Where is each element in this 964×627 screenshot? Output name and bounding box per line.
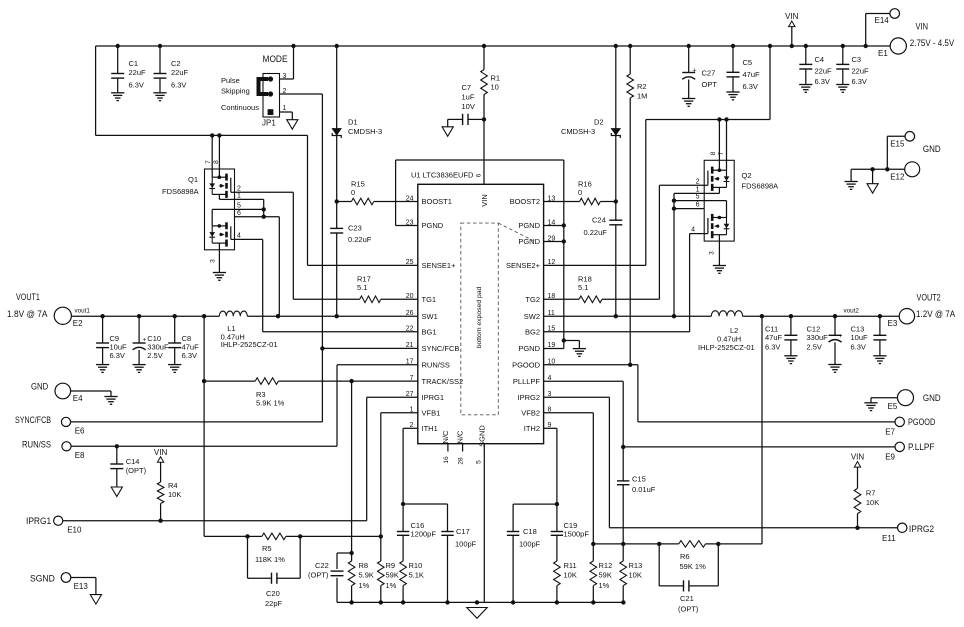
svg-text:10K: 10K [564,571,577,580]
capacitor C19 [551,504,590,538]
wire Q1 pins 1-5-6 SW tie [235,199,280,316]
capacitor C5 [727,46,761,92]
svg-text:C17: C17 [456,527,470,536]
svg-text:C2: C2 [171,59,181,68]
svg-text:VOUT2: VOUT2 [917,293,941,304]
wire RUN/SS net [71,365,418,449]
resistor R12 [590,544,612,603]
ground JP1 [287,120,298,130]
svg-text:E5: E5 [888,402,898,411]
svg-text:47uF: 47uF [743,70,761,79]
svg-text:E13: E13 [74,582,89,591]
capacitor C18 [507,504,557,602]
svg-text:PGOOD: PGOOD [512,360,541,369]
svg-text:TRACK/SS2: TRACK/SS2 [422,377,464,386]
svg-text:22pF: 22pF [265,599,283,608]
wire SENSE2+ net [544,120,646,266]
svg-text:5.1K: 5.1K [409,571,424,580]
resistor R17 [293,275,418,303]
capacitor C22 [308,553,352,602]
svg-text:BG1: BG1 [422,327,437,336]
resistor R16 [544,180,616,205]
diode D1 CMDSH-3 [332,46,382,202]
svg-text:(OPT): (OPT) [308,571,329,580]
svg-text:E10: E10 [67,526,82,535]
ground C9 [96,365,109,373]
wire TRACK/SS2 branch [349,381,353,555]
resistor R15 [335,180,418,205]
svg-text:7: 7 [718,151,725,155]
ground C2 [153,93,166,101]
svg-text:(OPT): (OPT) [126,466,147,475]
wire ITH1 net [401,428,418,506]
svg-text:IPRG2: IPRG2 [909,524,934,535]
svg-text:Q1: Q1 [188,175,198,184]
svg-text:22: 22 [406,326,414,333]
svg-text:CMDSH-3: CMDSH-3 [561,127,595,136]
svg-text:PGOOD: PGOOD [908,417,935,428]
svg-text:1: 1 [237,193,241,200]
svg-text:59K: 59K [599,571,612,580]
ground E12 earth [845,169,858,189]
svg-text:22uF: 22uF [815,67,833,76]
svg-text:+: + [693,68,697,75]
svg-text:BOOST2: BOOST2 [510,197,540,206]
svg-text:P.LLPF: P.LLPF [908,442,935,453]
svg-text:C27: C27 [702,69,716,78]
svg-text:VOUT1: VOUT1 [16,292,40,303]
svg-text:C23: C23 [348,224,362,233]
svg-text:+: + [143,337,147,344]
svg-text:FDS6898A: FDS6898A [162,187,199,196]
wire Q2 drain to VIN [646,46,770,170]
connector E15 [887,132,914,170]
svg-text:GND: GND [31,382,48,393]
svg-text:GND: GND [923,393,941,404]
connector E6 SYNC/FCB [15,415,85,435]
svg-text:ITH1: ITH1 [422,424,438,433]
svg-text:R10: R10 [409,561,423,570]
svg-text:5.1: 5.1 [578,283,588,292]
svg-text:D1: D1 [348,118,358,127]
svg-text:5: 5 [237,203,241,210]
svg-text:8: 8 [710,151,717,155]
svg-text:10K: 10K [629,571,642,580]
power flag VIN R4 [154,448,168,482]
svg-text:JP1: JP1 [262,119,276,128]
capacitor C10 [133,316,169,364]
svg-text:BOOST1: BOOST1 [422,197,452,206]
connector E7 PGOOD [885,417,935,437]
resistor R2 [627,46,648,365]
svg-text:SENSE1+: SENSE1+ [422,261,457,270]
svg-text:5.9K: 5.9K [359,571,374,580]
wire VOUT1 feedback riser [202,316,248,536]
resistor R10 [400,535,424,602]
svg-text:FDS6898A: FDS6898A [742,181,779,190]
svg-text:2: 2 [237,186,241,193]
svg-text:21: 21 [406,342,414,349]
svg-text:BG2: BG2 [525,327,540,336]
svg-text:5.9K 1%: 5.9K 1% [256,399,285,408]
svg-text:6: 6 [475,173,482,177]
ground E13 [90,595,101,605]
wire IPRG1 net [63,397,418,523]
wire VOUT2 line [743,314,900,318]
ground C5 [726,92,739,100]
capacitor C21 [659,544,718,614]
node VIN bus junctions [116,44,868,48]
svg-text:IPRG2: IPRG2 [517,393,540,402]
connector E5 GND [871,390,941,411]
svg-text:Q2: Q2 [742,171,752,180]
ground C10 [133,365,146,373]
ground E12 triangle [867,169,878,193]
svg-text:6.3V: 6.3V [852,77,867,86]
svg-text:VIN: VIN [851,453,865,462]
svg-text:0.01uF: 0.01uF [632,485,656,494]
svg-text:IPRG1: IPRG1 [26,516,51,527]
svg-text:RUN/SS: RUN/SS [22,439,51,450]
ground C7 [442,127,453,137]
svg-text:IPRG1: IPRG1 [422,393,445,402]
capacitor C13 [851,316,887,356]
connector E8 RUN/SS [22,439,85,460]
wire Q1 gate1 to TG1 [235,192,294,299]
ground C1 [111,93,124,101]
wire IPRG2 net [544,397,898,530]
svg-text:TG2: TG2 [525,295,540,304]
svg-text:5.1: 5.1 [357,283,367,292]
svg-text:2.5V: 2.5V [807,343,822,352]
svg-text:Pulse: Pulse [221,76,240,85]
svg-text:22uF: 22uF [852,67,870,76]
svg-text:22uF: 22uF [129,68,147,77]
svg-text:ITH2: ITH2 [524,424,540,433]
svg-text:GND: GND [923,144,941,155]
svg-text:6.3V: 6.3V [110,351,125,360]
wire JP1 pin3 to VIN [280,46,294,79]
svg-text:C4: C4 [815,55,825,64]
svg-text:SW1: SW1 [422,312,438,321]
ground C3 [836,85,849,93]
svg-text:C18: C18 [523,527,537,536]
svg-text:330uF: 330uF [807,333,829,342]
svg-text:C1: C1 [129,59,139,68]
svg-text:6: 6 [237,210,241,217]
wire Q1 gate2 to BG1 [235,239,418,331]
connector E3 VOUT2 [844,293,956,328]
svg-text:VFB1: VFB1 [422,408,441,417]
wire SGND pin5 [483,444,485,603]
capacitor C9 [96,316,127,364]
svg-text:2.5V: 2.5V [147,351,162,360]
svg-text:RUN/SS: RUN/SS [422,360,450,369]
capacitor C12 [807,316,843,364]
svg-text:SGND: SGND [478,425,487,447]
svg-text:R12: R12 [599,561,613,570]
svg-text:C3: C3 [852,55,862,64]
capacitor C1 [111,46,146,93]
wire SW1 line [247,314,417,318]
svg-text:C20: C20 [266,589,280,598]
resistor R3 [204,378,418,408]
svg-text:E15: E15 [890,140,905,149]
svg-text:SYNC/FCB: SYNC/FCB [422,344,460,353]
svg-text:C15: C15 [632,475,646,484]
svg-text:R8: R8 [359,561,369,570]
svg-text:28: 28 [458,457,465,465]
svg-text:TG1: TG1 [422,295,437,304]
svg-text:118K 1%: 118K 1% [255,555,285,564]
svg-text:C7: C7 [462,83,472,92]
resistor R9 [378,536,399,602]
wire VFB2 feedback line [593,316,762,546]
svg-text:C24: C24 [592,216,606,225]
svg-text:E2: E2 [73,319,83,328]
svg-text:3: 3 [709,251,716,255]
capacitor C27 [682,46,717,99]
wire PGND pin23 loop [396,160,566,349]
connector E10 IPRG1 [26,516,82,535]
svg-text:100pF: 100pF [455,539,477,548]
capacitor C7 [448,83,486,127]
inductor L1 [219,311,277,349]
power flag VIN top [785,12,799,46]
svg-text:SENSE2+: SENSE2+ [506,261,541,270]
svg-text:0.22uF: 0.22uF [348,235,372,244]
ground C13 [873,356,886,364]
svg-text:E12: E12 [890,173,905,182]
svg-text:6.3V: 6.3V [171,81,186,90]
wire SW2 line [544,314,712,318]
transistor Q1 FDS6898A [162,160,241,263]
svg-text:R2: R2 [637,82,647,91]
connector E1 VIN [878,21,955,58]
wire VFB1 net [381,413,418,537]
svg-text:16: 16 [443,456,450,464]
svg-text:6.3V: 6.3V [129,81,144,90]
svg-text:1.8V @ 7A: 1.8V @ 7A [7,309,48,320]
resistor R13 [620,544,642,603]
svg-text:R1: R1 [491,74,501,83]
svg-text:5: 5 [696,194,700,201]
svg-text:25: 25 [406,259,414,266]
svg-text:VIN: VIN [480,194,489,207]
capacitor C2 [154,46,189,93]
wire PLLLPF net [544,381,895,449]
svg-text:R7: R7 [866,489,876,498]
svg-text:C5: C5 [743,58,753,67]
resistor R18 [544,185,705,302]
svg-text:vout1: vout1 [75,308,91,315]
op-amp U1 LTC3836EUFD [406,171,556,465]
svg-text:24: 24 [406,195,414,202]
connector E12 GND [851,144,941,181]
svg-text:C21: C21 [680,594,694,603]
svg-text:E6: E6 [75,427,85,436]
svg-text:1%: 1% [386,581,397,590]
capacitor C20 [248,536,301,608]
resistor R8 [348,553,374,602]
capacitor C3 [836,46,869,86]
resistor R7 [854,488,879,527]
svg-text:4: 4 [691,227,695,234]
wire SGND bottom bus [337,600,626,604]
ground C12 [828,365,841,373]
svg-text:10V: 10V [462,102,475,111]
svg-text:PGND: PGND [518,237,540,246]
svg-text:E11: E11 [882,534,896,543]
svg-text:1200pF: 1200pF [411,530,437,539]
capacitor C11 [765,316,797,356]
svg-text:22uF: 22uF [171,68,189,77]
wire SENSE1+ bus [96,133,418,265]
svg-text:Skipping: Skipping [221,87,250,96]
ground PGND19 [564,341,586,357]
ground E5 [864,403,877,411]
ground C4 [799,85,812,93]
svg-text:3: 3 [210,259,217,263]
svg-text:E4: E4 [73,394,83,403]
svg-text:59K: 59K [386,571,399,580]
wire ITH2 net [544,428,560,506]
capacitor C16 [397,504,436,539]
ground C8 [168,365,181,373]
inductor L2 [698,311,755,352]
wire VIN top bus [96,46,891,135]
resistor R11 [554,535,577,602]
svg-text:0: 0 [578,188,582,197]
ground Q1 source [213,250,226,280]
capacitor C14 [110,446,146,487]
svg-text:6.3V: 6.3V [743,82,758,91]
svg-text:20: 20 [406,293,414,300]
svg-text:1.2V @ 7A: 1.2V @ 7A [916,309,956,320]
svg-text:1: 1 [696,186,700,193]
svg-text:SGND: SGND [30,574,55,585]
capacitor C8 [168,316,199,364]
wire VIN pin [483,119,485,184]
svg-text:R6: R6 [680,552,690,561]
wire VFB2 net [544,413,596,546]
svg-text:bottom exposed pad: bottom exposed pad [476,286,483,348]
svg-text:100pF: 100pF [519,539,541,548]
wire JP1 pin1 to ground [280,112,293,120]
svg-text:6.3V: 6.3V [851,343,866,352]
capacitor C4 [799,46,832,86]
svg-text:VIN: VIN [785,12,799,21]
ground C14 [111,487,122,497]
svg-text:Continuous: Continuous [221,103,259,112]
svg-text:VIN: VIN [916,21,929,32]
svg-text:vout2: vout2 [844,308,860,315]
svg-text:6: 6 [696,202,700,209]
svg-text:47uF: 47uF [765,333,783,342]
svg-text:R4: R4 [168,481,178,490]
capacitor C24 [584,199,623,316]
connector E13 SGND [30,573,96,595]
svg-text:PGND: PGND [518,344,540,353]
svg-text:PLLLPF: PLLLPF [513,377,541,386]
wire MODE/SYNC net [71,94,418,422]
svg-text:E8: E8 [75,451,85,460]
svg-text:0: 0 [351,188,355,197]
svg-text:6.3V: 6.3V [815,77,830,86]
svg-text:1uF: 1uF [462,93,475,102]
svg-text:7: 7 [205,160,212,164]
transistor Q2 FDS6898A [691,151,778,255]
capacitor C15 [617,447,656,544]
svg-text:5: 5 [476,460,483,464]
svg-text:C14: C14 [126,457,140,466]
svg-text:MODE: MODE [263,54,288,65]
ground C11 [784,356,797,364]
ground Q2 source [713,241,726,273]
svg-text:R13: R13 [629,561,643,570]
resistor R4 [157,481,181,521]
svg-text:4: 4 [237,233,241,240]
svg-text:1%: 1% [599,581,610,590]
svg-text:E14: E14 [875,16,890,25]
wire Q2 pins 1-5-6 SW tie [672,193,704,316]
svg-text:1M: 1M [637,92,647,101]
ground C27 [682,99,695,107]
svg-text:10: 10 [491,83,499,92]
connector E4 GND [31,382,111,403]
svg-text:N/C: N/C [456,430,465,444]
svg-text:8: 8 [213,160,220,164]
svg-text:59K 1%: 59K 1% [680,562,707,571]
power flag VIN R7 [851,453,865,489]
svg-text:C22: C22 [315,561,329,570]
svg-text:1: 1 [283,105,287,112]
svg-text:10K: 10K [168,490,181,499]
svg-text:IHLP-2525CZ-01: IHLP-2525CZ-01 [221,340,278,349]
svg-text:1%: 1% [359,581,370,590]
svg-text:E1: E1 [878,49,888,58]
svg-text:E9: E9 [885,452,895,461]
svg-text:VIN: VIN [154,448,168,457]
connector E14 [866,9,900,46]
diode D2 CMDSH-3 [561,46,620,202]
svg-text:IHLP-2525CZ-01: IHLP-2525CZ-01 [698,343,755,352]
svg-text:VFB2: VFB2 [521,408,540,417]
jumper JP1 MODE [221,54,288,128]
svg-text:1500pF: 1500pF [564,530,590,539]
resistor R5 [245,533,383,564]
svg-text:R5: R5 [262,544,272,553]
svg-text:0.22uF: 0.22uF [584,228,608,237]
wire BG2 net [544,234,705,332]
svg-text:PGND: PGND [422,221,444,230]
ground bottom bus [467,608,487,619]
svg-text:+: + [839,333,843,340]
resistor R1 [481,46,500,119]
svg-text:D2: D2 [594,118,604,127]
svg-text:(OPT): (OPT) [678,605,699,614]
svg-text:6.3V: 6.3V [182,351,197,360]
resistor R6 [679,541,706,571]
svg-text:R9: R9 [386,561,396,570]
svg-text:OPT: OPT [702,80,718,89]
connector E2 VOUT1 [7,292,90,328]
svg-text:10uF: 10uF [851,333,869,342]
connector E9 P.LLPF [885,442,934,461]
svg-text:U1 LTC3836EUFD: U1 LTC3836EUFD [411,171,474,180]
svg-text:2.75V - 4.5V: 2.75V - 4.5V [910,38,955,49]
capacitor C23 [330,202,372,317]
